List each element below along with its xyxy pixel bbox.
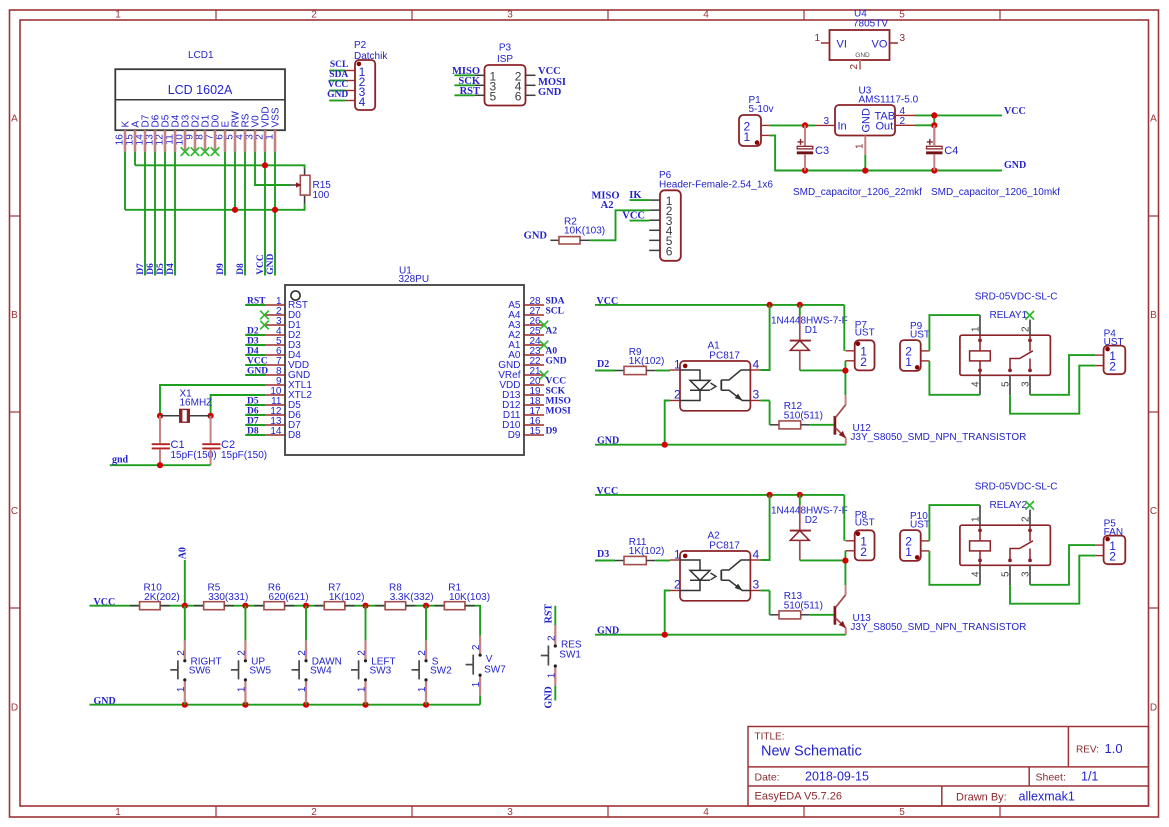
junction diode/P7.2 xyxy=(842,558,848,564)
wire U1 net D2 xyxy=(245,334,265,336)
wire P7.2 to transistor xyxy=(844,361,846,395)
svg-text:2: 2 xyxy=(311,10,317,21)
svg-text:2: 2 xyxy=(860,545,867,559)
svg-text:1: 1 xyxy=(471,681,482,687)
svg-text:2: 2 xyxy=(546,635,557,641)
U3 pin 3 In xyxy=(815,116,835,127)
wire LCD pin15 A to upper bus xyxy=(134,152,136,166)
svg-text:SCL: SCL xyxy=(330,60,348,70)
transistor U13 S8050 xyxy=(835,585,1027,635)
wire R2 to P6.2 xyxy=(590,210,649,240)
wire P9.2 to relay coil+ xyxy=(929,315,980,351)
svg-text:1: 1 xyxy=(546,672,557,678)
wire relay NC to P4.1 xyxy=(1030,355,1095,395)
wire R9 to opto pin1 xyxy=(655,370,670,372)
wire diode anode to P7.2 xyxy=(800,369,846,371)
wire lower bus to R15 bottom xyxy=(125,204,305,210)
svg-text:GND: GND xyxy=(1004,160,1026,171)
svg-text:RST: RST xyxy=(460,86,480,97)
wire LCD data D7 xyxy=(144,152,146,276)
svg-text:3: 3 xyxy=(753,578,760,592)
svg-text:VCC: VCC xyxy=(247,356,268,366)
junction C4 bottom xyxy=(931,167,937,173)
svg-text:2: 2 xyxy=(357,650,368,656)
svg-text:D2: D2 xyxy=(247,326,259,336)
wire LCD VDD to VCC xyxy=(264,152,266,276)
svg-text:VCC: VCC xyxy=(538,66,561,77)
relay RELAY1 body xyxy=(960,335,1051,375)
capacitor C4 xyxy=(926,125,958,170)
svg-text:4: 4 xyxy=(971,571,982,577)
no-connect U1 pins 2,3 xyxy=(260,311,269,330)
resistor R13 xyxy=(770,591,823,619)
svg-text:D7: D7 xyxy=(136,263,146,275)
svg-text:1: 1 xyxy=(176,686,187,692)
wire P2 GND xyxy=(329,100,345,102)
svg-text:LCD 1602A: LCD 1602A xyxy=(168,83,233,97)
svg-text:2: 2 xyxy=(674,388,681,402)
wire LCD VSS to GND xyxy=(274,152,276,276)
wire P2 SDA xyxy=(329,80,345,82)
relay pin posts xyxy=(971,315,1032,395)
svg-text:5: 5 xyxy=(899,807,905,818)
svg-text:4: 4 xyxy=(703,10,709,21)
svg-text:D3: D3 xyxy=(247,336,259,346)
svg-text:PC817: PC817 xyxy=(709,540,740,551)
wire P2 VCC xyxy=(329,90,345,92)
junction VCC rail xyxy=(303,603,309,609)
svg-text:7805TV: 7805TV xyxy=(853,19,888,30)
wire LCD RW to lower bus xyxy=(234,152,236,210)
svg-text:GND: GND xyxy=(524,230,548,241)
svg-text:GND: GND xyxy=(544,686,555,708)
pushbutton SW4 DAWN xyxy=(305,606,307,705)
wire VCC down to P7.1 xyxy=(843,495,845,541)
wire P9.2 to relay coil+ xyxy=(929,505,980,541)
resistor R6 xyxy=(254,582,308,609)
junction opto pin2 GND xyxy=(662,632,668,638)
junction C3 top xyxy=(802,122,808,128)
svg-text:A0: A0 xyxy=(177,547,188,559)
svg-text:D5: D5 xyxy=(156,263,166,275)
wire relay NO to P4.2 xyxy=(1010,556,1095,604)
junction diode cathode xyxy=(797,492,803,498)
junction X1 left xyxy=(157,413,163,419)
svg-text:D8: D8 xyxy=(288,430,301,441)
wire U1 net GND xyxy=(245,374,265,376)
wire TAB-Out tie xyxy=(933,115,935,125)
svg-text:1/1: 1/1 xyxy=(1081,770,1098,784)
svg-text:1: 1 xyxy=(854,143,865,149)
wire R to base xyxy=(810,614,834,616)
svg-text:4: 4 xyxy=(359,95,366,109)
svg-text:D1: D1 xyxy=(805,325,818,336)
svg-text:A: A xyxy=(1150,114,1157,125)
connector P9 xyxy=(900,321,930,371)
svg-text:1: 1 xyxy=(744,130,751,144)
resistor R1 xyxy=(435,582,490,609)
net labels P2 xyxy=(327,60,348,100)
junction X1 right xyxy=(208,413,214,419)
wire VCC rail xyxy=(595,494,844,496)
svg-text:SRD-05VDC-SL-C: SRD-05VDC-SL-C xyxy=(975,291,1058,302)
connector P7 xyxy=(855,320,875,370)
connector P6 Header-Female xyxy=(659,170,773,261)
wire C4 top tie xyxy=(933,125,935,146)
wire U1 net D7 xyxy=(245,424,265,426)
wire P1.1 to GND rail xyxy=(769,135,1002,170)
P9 pin stubs xyxy=(921,351,930,361)
wire upper bus to R15 top xyxy=(135,165,305,168)
wire P3 RST xyxy=(454,94,474,96)
wire opto pin4 to VCC xyxy=(760,495,769,560)
U4 pin 1 xyxy=(814,33,829,44)
svg-text:B: B xyxy=(11,310,18,321)
svg-text:510(511): 510(511) xyxy=(784,410,823,421)
wire diode anode to P7.2 xyxy=(800,559,846,561)
wire GND rail buttons xyxy=(90,704,481,706)
svg-text:SCK: SCK xyxy=(546,386,566,396)
svg-text:VSS: VSS xyxy=(271,107,282,127)
wire A0 xyxy=(184,560,186,606)
svg-text:1.0: 1.0 xyxy=(1105,741,1123,756)
svg-text:LCD1: LCD1 xyxy=(188,50,214,61)
junction on VDD at upper bus xyxy=(262,162,268,168)
svg-text:4: 4 xyxy=(753,547,760,561)
U3 pin 4 TAB xyxy=(895,106,915,117)
wire opto pin2 to GND xyxy=(665,401,670,445)
svg-text:A2: A2 xyxy=(601,200,614,211)
svg-text:A0: A0 xyxy=(546,346,558,356)
junction VCC rail xyxy=(182,603,188,609)
svg-text:SDA: SDA xyxy=(329,70,348,80)
pushbutton SW7 V xyxy=(479,636,481,705)
svg-text:4: 4 xyxy=(703,807,709,818)
junction Out xyxy=(931,122,937,128)
connector P3 ISP xyxy=(485,43,526,106)
resistor R9 xyxy=(615,347,664,375)
P4 pin stubs xyxy=(1095,355,1103,366)
svg-text:2: 2 xyxy=(297,650,308,656)
wire D3 in xyxy=(595,560,615,562)
net labels P3 xyxy=(452,66,566,98)
svg-text:D4: D4 xyxy=(166,263,176,275)
svg-text:1: 1 xyxy=(814,33,820,44)
svg-text:1K(102): 1K(102) xyxy=(629,356,665,367)
svg-text:B: B xyxy=(1150,310,1157,321)
svg-text:RST: RST xyxy=(543,604,554,624)
svg-text:SW1: SW1 xyxy=(559,650,581,661)
junction GND rail xyxy=(182,702,188,708)
wire P7.2 to transistor xyxy=(844,551,846,585)
svg-text:2: 2 xyxy=(471,644,482,650)
svg-text:UST: UST xyxy=(855,518,875,529)
resistor R5 xyxy=(194,582,248,609)
P10 pin stubs xyxy=(921,541,930,551)
no-connect U1 pins 26,24,21 xyxy=(540,321,549,380)
svg-text:3: 3 xyxy=(824,116,830,127)
diode D1 1N4448 xyxy=(771,305,848,371)
resistor R2 xyxy=(550,217,605,245)
pushbutton SW2 S xyxy=(425,606,427,705)
junction VCC rail xyxy=(242,603,248,609)
junction VCC rail xyxy=(423,603,429,609)
svg-text:D3: D3 xyxy=(597,549,609,560)
wire U3 Out xyxy=(915,124,934,126)
svg-text:A: A xyxy=(11,114,18,125)
svg-text:16MHZ: 16MHZ xyxy=(180,398,213,409)
svg-text:D9: D9 xyxy=(508,430,521,441)
wire P6.3 VCC xyxy=(630,220,650,222)
svg-text:3: 3 xyxy=(1021,381,1032,387)
svg-text:SRD-05VDC-SL-C: SRD-05VDC-SL-C xyxy=(975,481,1058,492)
svg-text:2: 2 xyxy=(236,650,247,656)
svg-text:Header-Female-2.54_1x6: Header-Female-2.54_1x6 xyxy=(659,179,773,190)
svg-text:UST: UST xyxy=(910,330,930,341)
svg-text:1: 1 xyxy=(297,686,308,692)
wire gnd xyxy=(110,464,211,466)
svg-text:VCC: VCC xyxy=(256,254,266,275)
LCD display LCD1 xyxy=(114,50,285,145)
svg-text:GND: GND xyxy=(266,254,276,275)
P3 pin stubs xyxy=(475,75,536,95)
svg-text:A2: A2 xyxy=(546,326,558,336)
optocoupler A1 PC817 xyxy=(674,340,760,411)
resistor R8 xyxy=(375,582,433,609)
P6 pin stubs xyxy=(649,200,660,250)
svg-text:C: C xyxy=(11,506,18,517)
junction opto pin2 GND xyxy=(662,442,668,448)
svg-text:2: 2 xyxy=(176,650,187,656)
pushbutton SW6 RIGHT xyxy=(184,606,186,705)
svg-text:2: 2 xyxy=(860,355,867,369)
svg-text:D8: D8 xyxy=(236,263,246,275)
P7 pin stubs xyxy=(845,351,854,361)
svg-text:allexmak1: allexmak1 xyxy=(1019,790,1075,804)
A1 pin stubs xyxy=(670,370,760,401)
svg-text:5-10v: 5-10v xyxy=(749,104,774,115)
wire opto pin4 to VCC xyxy=(760,305,769,370)
wire P9.1 to relay coil- xyxy=(929,361,980,395)
svg-text:GND: GND xyxy=(855,52,870,59)
wire opto pin3 xyxy=(760,590,769,592)
svg-text:VCC: VCC xyxy=(1004,106,1026,117)
svg-text:Date:: Date: xyxy=(755,772,780,784)
svg-text:3: 3 xyxy=(507,807,513,818)
svg-text:VCC: VCC xyxy=(328,80,349,90)
resistor R10 xyxy=(130,582,180,609)
svg-text:328PU: 328PU xyxy=(399,274,430,285)
pushbutton SW1 RES xyxy=(543,604,555,709)
svg-text:3: 3 xyxy=(753,388,760,402)
wire R11 to opto pin1 xyxy=(655,560,670,562)
svg-text:VI: VI xyxy=(837,39,847,51)
wire P6.1 IK xyxy=(630,199,650,201)
svg-text:D7: D7 xyxy=(247,416,259,426)
svg-text:SW7: SW7 xyxy=(484,664,506,675)
relay pin posts xyxy=(971,505,1032,585)
svg-text:5: 5 xyxy=(1001,381,1012,387)
title block xyxy=(748,727,1149,807)
wire P2 SCL xyxy=(329,70,345,72)
svg-text:D6: D6 xyxy=(247,406,259,416)
svg-text:VCC: VCC xyxy=(546,376,567,386)
svg-text:5: 5 xyxy=(1001,571,1012,577)
svg-text:New Schematic: New Schematic xyxy=(761,744,862,760)
wire P3 MISO xyxy=(454,74,474,76)
svg-text:SW3: SW3 xyxy=(370,666,392,677)
svg-text:5: 5 xyxy=(899,10,905,21)
svg-text:2: 2 xyxy=(900,116,906,127)
svg-text:P2: P2 xyxy=(354,40,367,51)
wire U1 net VCC xyxy=(245,364,265,366)
P5 pin stubs xyxy=(1095,545,1103,556)
svg-text:gnd: gnd xyxy=(112,454,129,465)
wire U1 net D3 xyxy=(245,344,265,346)
potentiometer R15 xyxy=(290,168,331,204)
svg-text:2: 2 xyxy=(674,578,681,592)
junction C3 bottom xyxy=(802,167,808,173)
svg-text:SCL: SCL xyxy=(546,306,564,316)
svg-text:PC817: PC817 xyxy=(709,350,740,361)
svg-text:In: In xyxy=(838,121,847,133)
svg-text:1: 1 xyxy=(905,355,912,369)
svg-text:REV:: REV: xyxy=(1076,745,1099,756)
svg-text:SW2: SW2 xyxy=(430,666,452,677)
no-connect marks on LCD pins D3-D0 xyxy=(181,147,220,156)
svg-text:3: 3 xyxy=(1021,571,1032,577)
junction RW at lower bus xyxy=(232,207,238,213)
capacitor C3 xyxy=(797,125,829,170)
svg-text:GND: GND xyxy=(247,366,268,376)
U3 pin 1 GND xyxy=(854,136,865,156)
connector P5 xyxy=(1104,519,1126,565)
svg-text:100: 100 xyxy=(313,190,330,201)
svg-text:RELAY1: RELAY1 xyxy=(990,310,1028,321)
wire LCD data D4 xyxy=(174,152,176,276)
junction GND rail xyxy=(303,702,309,708)
no-connect relay pin2 xyxy=(1025,311,1034,320)
net labels under LCD xyxy=(136,254,276,275)
junction opto collector xyxy=(767,302,773,308)
pushbutton SW3 LEFT xyxy=(365,606,367,705)
svg-text:1K(102): 1K(102) xyxy=(629,546,665,557)
wire R to base xyxy=(810,424,834,426)
svg-text:UST: UST xyxy=(855,328,875,339)
connector P4 xyxy=(1104,329,1126,375)
svg-text:2: 2 xyxy=(311,807,317,818)
pushbutton SW5 UP xyxy=(244,606,246,705)
capacitor C2 xyxy=(202,416,267,465)
svg-text:Drawn By:: Drawn By: xyxy=(956,792,1007,804)
connector P1 5-10v xyxy=(739,95,774,146)
svg-text:SW5: SW5 xyxy=(249,666,271,677)
svg-text:C4: C4 xyxy=(944,145,958,157)
P2 pin stubs xyxy=(345,71,355,101)
svg-text:EasyEDA V5.7.26: EasyEDA V5.7.26 xyxy=(755,791,842,803)
regulator U4 7805TV xyxy=(830,9,890,61)
svg-text:P3: P3 xyxy=(499,43,512,54)
svg-text:D5: D5 xyxy=(247,396,259,406)
regulator U3 AMS1117-5.0 xyxy=(835,86,919,136)
wire U1 net D5 xyxy=(245,404,265,406)
svg-text:D8: D8 xyxy=(247,426,259,436)
wire GND rail xyxy=(595,444,846,446)
junction VSS at lower bus xyxy=(272,207,278,213)
svg-text:SDA: SDA xyxy=(546,296,565,306)
wire LCD V0 to R15 wiper xyxy=(255,152,290,185)
svg-text:3: 3 xyxy=(507,10,513,21)
svg-text:510(511): 510(511) xyxy=(784,600,823,611)
wire GND rail xyxy=(595,634,846,636)
connector P10 xyxy=(900,511,930,561)
wire opto pin3 xyxy=(760,400,769,402)
svg-text:VO: VO xyxy=(872,39,888,51)
svg-text:GND: GND xyxy=(538,87,562,98)
svg-text:Out: Out xyxy=(876,121,894,133)
junction diode/P7.2 xyxy=(842,368,848,374)
svg-text:J3Y_S8050_SMD_NPN_TRANSISTOR: J3Y_S8050_SMD_NPN_TRANSISTOR xyxy=(850,432,1026,443)
LCD1 pins xyxy=(125,130,275,151)
resistor R7 xyxy=(315,582,365,609)
wire U1 net D4 xyxy=(245,354,265,356)
svg-text:2: 2 xyxy=(1021,326,1032,332)
relay RELAY2 body xyxy=(960,525,1051,565)
svg-text:1: 1 xyxy=(971,326,982,332)
wire P1.2 to U3 In xyxy=(769,124,815,126)
wire opto pin3 to R xyxy=(769,401,771,425)
svg-text:AMS1117-5.0: AMS1117-5.0 xyxy=(859,95,919,106)
resistor R11 xyxy=(615,537,664,565)
svg-text:SW6: SW6 xyxy=(189,666,211,677)
svg-text:2018-09-15: 2018-09-15 xyxy=(805,770,869,784)
svg-text:C: C xyxy=(1150,506,1157,517)
wire XTL1 xyxy=(160,385,265,416)
wire P9.1 to relay coil- xyxy=(929,551,980,585)
svg-text:MOSI: MOSI xyxy=(546,406,572,416)
svg-text:D6: D6 xyxy=(146,263,156,275)
diode D2 1N4448 xyxy=(771,495,848,561)
U1 pin stubs xyxy=(265,305,544,435)
junction opto collector xyxy=(767,492,773,498)
junction TAB xyxy=(931,112,937,118)
svg-text:3: 3 xyxy=(900,33,906,44)
wire VCC rail xyxy=(595,304,844,306)
svg-text:D: D xyxy=(11,703,18,714)
wire relay NC to P4.1 xyxy=(1030,545,1095,585)
wire U3 TAB to VCC xyxy=(915,114,1002,116)
wire opto pin2 to GND xyxy=(665,591,670,635)
svg-text:GND: GND xyxy=(327,90,348,100)
wire P3 SCK xyxy=(454,84,474,86)
U4 pin 2 xyxy=(849,60,860,70)
capacitor C1 xyxy=(152,416,217,465)
svg-text:SW4: SW4 xyxy=(310,666,332,677)
svg-text:10K(103): 10K(103) xyxy=(564,226,605,237)
svg-text:SMD_capacitor_1206_10mkf: SMD_capacitor_1206_10mkf xyxy=(931,187,1060,198)
junction GND rail xyxy=(423,702,429,708)
svg-text:RST: RST xyxy=(247,296,266,306)
svg-text:15pF(150): 15pF(150) xyxy=(221,450,267,461)
junction C1 gnd xyxy=(157,462,163,468)
svg-text:SMD_capacitor_1206_22mkf: SMD_capacitor_1206_22mkf xyxy=(793,187,922,198)
optocoupler A2 PC817 xyxy=(674,530,760,601)
P1 pin stubs xyxy=(761,125,769,135)
svg-text:GND: GND xyxy=(861,108,873,133)
wire LCD E to D9 xyxy=(224,152,226,276)
wire LCD pin16 K to lower bus xyxy=(124,152,126,210)
wire U3 GND to rail xyxy=(864,155,866,171)
